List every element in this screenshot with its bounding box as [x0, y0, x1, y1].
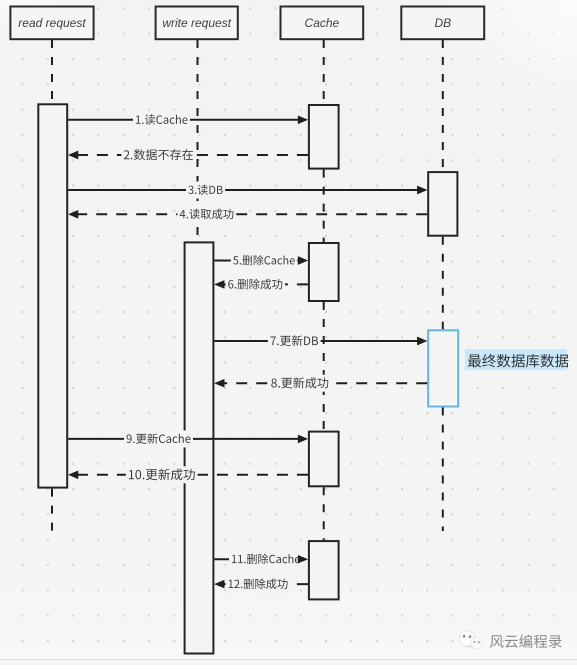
- svg-text:write request: write request: [162, 16, 231, 30]
- svg-text:Cache: Cache: [305, 16, 340, 30]
- svg-text:DB: DB: [434, 16, 451, 30]
- svg-text:read request: read request: [18, 16, 86, 30]
